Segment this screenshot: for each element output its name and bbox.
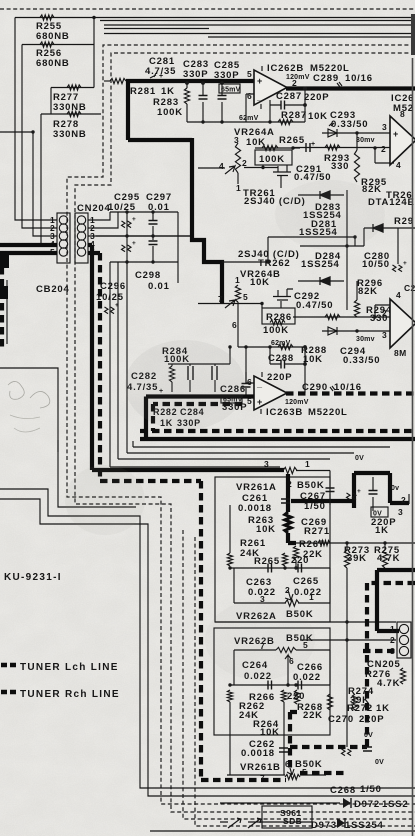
svg-text:330: 330 [331,161,349,172]
capacitor C280 ch1 electrolytic [397,228,399,264]
wire y317 ch2 second stage [293,316,390,318]
svg-text:10/50: 10/50 [362,259,390,270]
wire bus B [100,20,415,22]
svg-text:_: _ [256,379,263,389]
resistor R274 39K [352,694,357,710]
wire R278 [41,113,101,115]
resistor R295 82K [356,133,358,150]
node 65mV [219,84,240,93]
svg-text:M5220L: M5220L [308,407,348,418]
svg-text:0.01: 0.01 [148,202,170,213]
svg-text:120mV: 120mV [286,74,310,81]
wire cap bank mid y236 [96,235,192,237]
thick full-width Rch dashed line y431 [140,429,415,433]
diode on wire y133 [328,129,337,137]
svg-text:C270: C270 [328,714,354,725]
svg-text:0.01: 0.01 [148,281,170,292]
wire vertical x22 to CB204 pin2 [22,45,57,229]
wire pot wiper y303.5 [198,303,262,305]
svg-text:+: + [352,744,356,751]
svg-text:680NB: 680NB [36,58,70,69]
box VR261A section [215,477,330,622]
wire pot wiper y168 [198,167,225,169]
resistor R275 4.7K [384,543,386,550]
bottom edge line [150,830,415,832]
svg-text:IC263B: IC263B [266,407,303,418]
svg-text:2: 2 [382,308,387,318]
svg-text:4.7K: 4.7K [377,553,400,564]
thick Lch bar into op2 + input [146,394,254,398]
resistor R293 330 [325,145,340,150]
svg-text:R287: R287 [281,110,307,121]
wire y237 [268,237,355,246]
stamp box top-left [0,368,58,452]
svg-text:0.0018: 0.0018 [238,503,272,514]
svg-text:3: 3 [382,122,387,132]
svg-text:6: 6 [285,759,290,769]
svg-text:0.33/50: 0.33/50 [331,119,368,130]
trimmer VR262A B50K [234,568,330,603]
wire y364 component rail [168,363,230,365]
svg-text:IC262B: IC262B [267,63,304,74]
thick branch down from trace [126,81,130,140]
wire x347 segment [346,640,348,747]
svg-text:3: 3 [398,507,403,517]
svg-text:1SS254: 1SS254 [345,820,384,831]
svg-text:+: + [403,260,407,267]
wire left input y132 [0,132,57,236]
connector CB204 [57,213,70,263]
wire vertical x15 to CB204 pin1 [15,18,57,221]
svg-text:C290: C290 [302,382,328,393]
wire feed W4 [133,441,390,447]
wire R256 [22,44,94,46]
wire feed W3 [127,262,354,453]
svg-text:3: 3 [382,330,387,340]
border line n6 dashed [195,537,415,826]
wire bus E [208,36,415,38]
op-amp IC263A right edge [390,299,415,348]
svg-text:1K: 1K [375,525,389,536]
wire y543 [296,542,415,544]
wire y246 [300,245,364,247]
wire wiper x288 [287,662,289,685]
svg-text:7: 7 [260,773,265,783]
capacitor C295 10/25 [126,212,128,262]
wire vertical x94 [93,18,95,88]
thick dashed joint to x367 [290,745,367,749]
wire feed W2 [118,262,330,459]
thick solid trace right edge y570 [377,570,415,631]
diode on wire y331 [328,327,337,335]
transistor TR262 symbol [273,289,293,308]
svg-text:_: _ [256,92,263,102]
thick wiper down [286,474,290,512]
svg-text:1: 1 [235,275,240,285]
svg-text:100K: 100K [263,325,289,336]
svg-text:B50K: B50K [295,759,323,770]
resistor R277 330NB [67,85,81,90]
capacitor on 0V branch [372,477,374,511]
capacitor C262 0.0018 [279,748,288,752]
thick dashed link to C268 node [300,771,347,775]
thick output trace of IC262B [286,86,415,90]
connector CN204 [75,213,88,263]
svg-text:8M: 8M [394,348,407,358]
resistor R262 24K [227,690,232,702]
svg-text:10/25: 10/25 [108,202,136,213]
capacitor C265 0.022 [298,564,302,573]
svg-text:R29: R29 [394,216,414,227]
wire bus A [15,17,415,19]
diode D973 1SS254 [248,821,299,823]
svg-text:CN204: CN204 [77,203,111,214]
svg-text:330P: 330P [183,69,208,80]
thick full-width Lch line y439 [140,437,415,441]
resistor R267 22K [293,546,298,560]
svg-text:C288: C288 [268,353,294,364]
thick dashed branch to CN205 pin3 [363,649,396,653]
wire y122 feedback rail [187,121,305,123]
thick output trace IC263B (dashed Rch) [286,391,415,395]
thick left-edge entry blocks [0,255,9,268]
caps near 0V [342,749,352,756]
op-amp IC262B M5220L [254,70,287,105]
electrolytic near 0V [347,493,357,500]
wire y640 to CN205 [300,639,396,641]
resistor R263 10K (thick) [285,512,291,533]
wire y195 with left diode (TR261 drain) [298,194,344,196]
thick Lch trace to op-amp + input [126,79,254,83]
capacitor C282 4.7/35 [188,366,217,380]
resistor R286 100K (boxed) [262,308,295,324]
thick Rch dashed trace from CN204 pin5 [88,251,100,255]
svg-text:0.33/50: 0.33/50 [343,355,380,366]
capacitor C288 220P [270,347,305,364]
thick vertical x192 down with jog [192,138,222,303]
wire cap bank top [110,211,178,213]
svg-text:2: 2 [242,158,247,168]
svg-text:6: 6 [247,91,252,101]
resistor R268 22K [294,690,299,704]
svg-text:CB204: CB204 [36,284,70,295]
svg-text:VR261B: VR261B [240,762,281,773]
svg-text:65mV: 65mV [221,87,241,94]
capacitor C283 [202,83,204,122]
svg-text:2: 2 [390,635,395,645]
capacitor C287 220P [270,104,305,106]
thick Lch trace from CN204 pin4 [88,245,284,470]
border line n2 solid [0,499,415,796]
resistor R265 100K (boxed) [262,145,278,150]
resistor R281 1K [104,80,110,82]
svg-text:D973: D973 [311,820,337,831]
wire y148 R265 [255,147,300,149]
resistor R255 680NB [40,15,54,20]
thick dashed trace right edge y583 [367,583,415,747]
svg-text:+: + [257,76,263,86]
svg-text:TUNER Rch LINE: TUNER Rch LINE [20,689,120,700]
svg-text:1K: 1K [161,86,175,97]
right edge section border [412,58,414,836]
wire y228 with left diode [364,227,415,229]
wire CN204 pin3 long [88,235,192,237]
svg-text:R272: R272 [347,703,373,714]
svg-text:220P: 220P [359,714,384,725]
svg-text:0V: 0V [364,732,373,739]
resistor R256 680NB [40,42,54,47]
svg-text:0V: 0V [375,759,384,766]
wire y331 ch2 second stage [322,330,390,332]
svg-text:1K: 1K [376,703,390,714]
svg-text:1: 1 [309,592,314,602]
wire x268 down [222,237,268,262]
thick dashed wiper down to VR261B [290,712,297,772]
svg-text:22K: 22K [303,549,323,560]
thick vertical x140 [144,397,148,441]
svg-text:+: + [132,216,136,223]
svg-text:C289: C289 [313,73,339,84]
scan mottle patches (decorative, unlabeled) [125,340,245,430]
box VR262B section [214,628,330,735]
wire cap bank bottom y262 [110,261,178,263]
svg-text:R265: R265 [279,135,305,146]
svg-text:1SS2: 1SS2 [382,799,408,810]
svg-text:82K: 82K [358,286,378,297]
node mark on output [337,82,342,87]
svg-text:5: 5 [243,292,248,302]
resistor R284 100K [169,366,174,382]
svg-text:4.7K: 4.7K [377,678,400,689]
wire R277 [51,87,94,89]
svg-text:R266: R266 [249,692,275,703]
wire CN204 pin1 [88,212,110,220]
svg-text:+: + [357,488,361,495]
switch S961 SDB [262,806,312,828]
svg-text:0.022: 0.022 [293,672,321,683]
svg-text:4.7/35: 4.7/35 [145,66,176,77]
svg-text:TUNER Lch LINE: TUNER Lch LINE [20,662,119,673]
svg-text:0v: 0v [391,485,399,492]
wire y133 to pin3 [322,132,390,134]
legend TUNER Rch LINE [1,690,16,695]
svg-text:330NB: 330NB [53,102,87,113]
wire top dashed bus [0,8,415,10]
svg-text:10/16: 10/16 [345,73,373,84]
svg-text:0V: 0V [355,455,364,462]
capacitor C269 220P [329,471,331,506]
svg-text:5: 5 [247,69,252,79]
wire vertical x41 to pin4 [40,114,42,244]
svg-text:C2: C2 [404,283,415,293]
svg-text:R281: R281 [130,86,156,97]
capacitor C281 4.7/35 (on trace) [150,73,156,78]
resistor R288 10K [278,344,293,349]
wire y347 feedback rail ch2 [238,346,305,348]
svg-text:220P: 220P [267,372,292,383]
svg-text:10K: 10K [308,111,328,122]
long line y622 [215,621,396,623]
thick dashed Rch into C286 [153,404,242,431]
resistor R283 100K [186,83,188,122]
wire CN204 pin2 [88,212,118,228]
svg-text:100K: 100K [157,107,183,118]
resistor R265 220 [282,553,287,566]
thick left-edge dashed stub [0,255,4,350]
svg-text:R271: R271 [304,526,330,537]
capacitor C291 0.47/50 (on wire) [306,143,310,152]
svg-text:2: 2 [292,78,297,88]
wire y281 with left diode [298,280,344,282]
svg-text:10K: 10K [256,524,276,535]
wire - input ch2 [246,347,254,383]
svg-text:30mv: 30mv [356,137,375,144]
trimmer VR261B B50K [227,774,326,776]
svg-text:3: 3 [264,459,269,469]
svg-text:4: 4 [219,161,224,171]
svg-text:2: 2 [285,585,290,595]
wire pin connections IC263A [375,305,394,317]
capacitor C285 [221,83,223,122]
svg-text:B50K: B50K [297,480,325,491]
wire to pin4 [375,148,394,163]
svg-text:+: + [311,141,315,148]
node 0V boxed [371,507,388,517]
svg-text:1: 1 [305,459,310,469]
resistor R266 220 [281,690,286,702]
svg-text:SDB: SDB [283,816,302,826]
border line n1 solid [0,489,415,788]
svg-text:6: 6 [232,320,237,330]
capacitor C297 0.01 [152,212,154,262]
svg-text:330NB: 330NB [53,129,87,140]
svg-text:0.022: 0.022 [294,587,322,598]
thick Lch line into CB204 pin4 [0,243,57,247]
thick horizontal y140 [128,138,192,142]
svg-text:100K: 100K [259,154,285,165]
svg-text:C265: C265 [293,576,319,587]
diode D972 1SS2 [248,802,340,804]
thick Rch line into CB204 pin5 [0,251,57,255]
svg-text:C298: C298 [135,270,161,281]
svg-text:0.0018: 0.0018 [241,748,275,759]
wire bus C [104,24,415,26]
svg-text:2: 2 [401,495,406,505]
svg-text:8: 8 [400,109,405,119]
wire x305 to output [304,347,306,393]
svg-text:62mV: 62mV [239,115,259,122]
transistor TR261 2SJ40 (C/D) [273,165,291,188]
svg-text:22K: 22K [303,710,323,721]
svg-text:30mv: 30mv [356,336,375,343]
wire to FET [244,167,278,169]
svg-text:1: 1 [390,624,395,634]
svg-text:C287: C287 [276,91,302,102]
svg-text:6: 6 [247,377,252,387]
wire x347 long vertical [346,190,348,310]
right edge dark strip [411,14,415,55]
resistor R273 39K [346,543,348,550]
wire y147.5 to pin2 [293,147,390,149]
svg-text:1/50: 1/50 [360,784,382,795]
svg-text:KU-9231-I: KU-9231-I [4,572,62,583]
svg-text:39K: 39K [347,553,367,564]
dashed border top corner 2 [75,53,415,812]
svg-text:7: 7 [218,294,223,304]
wire y685 [230,684,330,686]
thick link pot1 to C269 node [291,473,409,508]
resistor R287 [278,119,293,124]
svg-text:C296: C296 [100,281,126,292]
svg-text:10/16: 10/16 [334,382,362,393]
border line n5 dashed [183,530,415,819]
svg-text:330P: 330P [214,70,239,81]
feedback tap [303,87,307,91]
resistor R294 330 [325,314,340,319]
svg-text:TR262: TR262 [258,258,291,269]
svg-text:680NB: 680NB [36,31,70,42]
svg-text:10K: 10K [260,727,280,738]
wire feed W1 [110,466,280,468]
wire y568 [230,567,330,569]
svg-text:+: + [132,240,136,247]
switch contacts [228,818,241,828]
svg-text:4: 4 [396,290,401,300]
legend TUNER Lch LINE [1,663,16,668]
svg-text:3: 3 [234,135,239,145]
svg-text:D972: D972 [354,799,380,810]
border corner x58 [58,440,136,507]
svg-text:1SS254: 1SS254 [301,259,340,270]
svg-text:0.47/50: 0.47/50 [296,300,333,311]
svg-text:VR261A: VR261A [236,482,277,493]
wire stub x7 [6,280,8,344]
wire vertical x51 [50,88,52,115]
svg-text:2: 2 [381,144,386,154]
wire - input [246,94,254,122]
op-amp IC263B M5220L [254,376,287,410]
svg-text:R265: R265 [254,556,280,567]
svg-text:120mV: 120mV [285,399,309,406]
svg-text:C268: C268 [330,785,356,796]
svg-text:4: 4 [396,160,401,170]
capacitor C263 0.022 [268,564,272,573]
dashed border top corner 1 [67,45,415,804]
resistor R296 82K [354,300,359,317]
svg-text:1: 1 [236,183,241,193]
wire bank right x178 [177,212,179,283]
svg-text:10K: 10K [250,277,270,288]
wires into S961 [220,803,313,822]
svg-text:+: + [257,397,263,407]
svg-text:0V: 0V [373,511,382,518]
connector CN205 [397,622,411,658]
svg-text:220P: 220P [304,92,329,103]
wire bus D [104,29,415,34]
resistor R278 330NB [67,111,81,116]
svg-text:+: + [393,129,399,139]
